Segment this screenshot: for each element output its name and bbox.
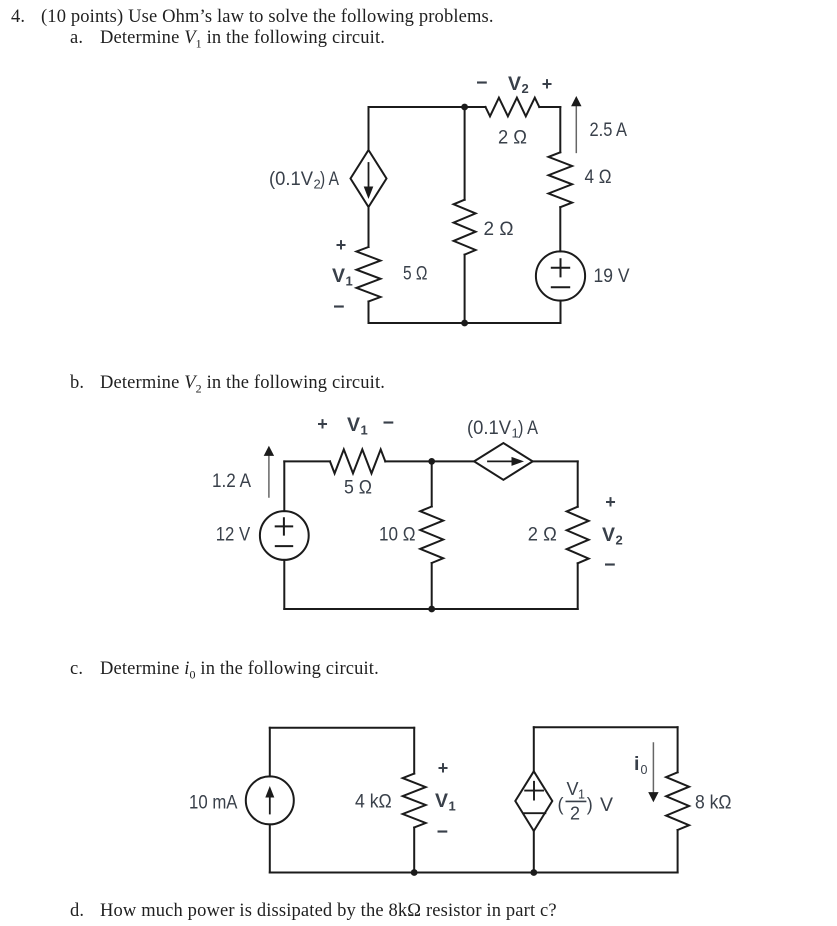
circuit b: resistor 2ohm vertical (V2) [567,507,589,564]
svg-text:19 V: 19 V [594,265,630,287]
svg-text:−: − [476,72,487,94]
svg-text:1: 1 [346,274,353,289]
circuit b: label (0.1V1) A [467,417,538,441]
circuit a: node dot bottom middle [461,320,468,327]
circuit b: bottom wire [284,608,577,610]
circuit c: label i0 [634,753,648,777]
circuit b: left wire top [283,461,285,511]
svg-text:2 Ω: 2 Ω [528,523,557,545]
svg-text:V: V [332,265,345,287]
svg-text:+: + [317,414,328,434]
svg-text:V: V [508,73,521,95]
svg-text:): ) [587,795,593,815]
circuit c: label 10 mA [189,792,238,814]
circuit a: node dot top middle [461,104,468,111]
circuit a: dependent current source diamond (0.1V2)A [351,150,387,207]
circuit b: top wire left segment [284,460,330,462]
svg-text:1: 1 [449,799,456,814]
circuit b: voltage source 12V circle [260,511,309,560]
circuit a: middle wire top [464,107,466,200]
part d prompt [70,901,84,922]
circuit c: wire top to 4k resistor [413,728,415,774]
circuit c: current source 10mA circle [246,776,294,824]
svg-text:−: − [333,296,344,318]
circuit a: right wire top [559,107,561,152]
svg-text:) A: ) A [518,417,538,439]
circuit b: middle wire bottom [431,563,433,609]
svg-text:1.2 A: 1.2 A [212,470,251,492]
svg-text:5 Ω: 5 Ω [344,476,372,498]
circuit a: wire 5ohm to bottom [368,302,370,324]
circuit c: node dot bottom left [411,869,418,876]
circuit b: right wire bottom [577,563,579,609]
circuit c: resistor 8kohm vertical [666,772,689,830]
circuit b: label 1.2 A [212,470,251,492]
circuit c: loop1 top wire [270,727,414,729]
part c prompt [70,659,83,680]
svg-text:10 Ω: 10 Ω [379,524,416,546]
circuit c: right wire top [677,727,679,772]
svg-text:+: + [542,74,553,94]
svg-text:0: 0 [641,763,648,777]
circuit c: loop2 top wire [534,726,678,728]
circuit c: label 4 kohm [355,790,392,812]
part a prompt [70,28,83,49]
circuit c: label + V1 - for 4k [435,758,456,843]
svg-text:+: + [438,758,449,778]
circuit b: right wire top [577,461,579,506]
circuit c: resistor 4kohm vertical (V1) [403,774,426,828]
svg-text:4 Ω: 4 Ω [585,166,612,188]
svg-text:(0.1V: (0.1V [467,417,511,439]
svg-text:(0.1V: (0.1V [269,168,313,190]
svg-text:2.5 A: 2.5 A [590,119,628,141]
circuit b: current arrow 1.2 A [264,446,274,497]
circuit c: wire diamond top to loop2 top [533,727,535,771]
circuit a: bottom wire [369,322,561,324]
svg-text:4 kΩ: 4 kΩ [355,790,392,812]
circuit a: left wire top [368,107,370,150]
circuit a: resistor 4ohm vertical [549,152,573,207]
circuit b: label 2 ohm [528,523,557,545]
svg-text:−: − [383,412,394,434]
svg-text:5 Ω: 5 Ω [403,263,428,285]
circuit b: middle wire top [431,461,433,506]
svg-text:2: 2 [522,81,529,96]
circuit a: voltage source 19V circle [536,251,585,300]
circuit c: wire 4k to bottom [413,828,415,873]
circuit a: wire 4ohm to source [559,207,561,251]
circuit a: middle wire bottom [464,255,466,323]
circuit a: wire source to bottom [560,301,562,323]
svg-text:−: − [437,821,448,843]
circuit a: label 19 V [594,265,630,287]
circuit a: label 2.5 A [590,119,628,141]
svg-text:10 mA: 10 mA [189,792,238,814]
svg-text:+: + [605,492,616,512]
svg-text:V: V [602,524,615,546]
circuit a: label + V1 - for 5ohm [332,235,353,318]
circuit a: label 2 ohm (middle) [484,218,514,240]
circuit a: label - V2 + above resistor [476,72,552,96]
svg-text:2 Ω: 2 Ω [498,127,527,149]
svg-text:1: 1 [578,788,585,802]
circuit c: node dot bottom right [530,869,537,876]
circuit c: wire diamond bottom [533,831,535,873]
circuit b: node dot bottom middle [428,606,435,613]
circuit b: label + V2 - right [602,492,623,576]
svg-text:12 V: 12 V [216,524,251,546]
circuit a: resistor 2ohm vertical middle [454,200,476,255]
circuit b: node dot top middle [428,458,435,465]
svg-text:8 kΩ: 8 kΩ [695,791,732,813]
svg-text:(: ( [558,795,564,815]
circuit b: label 10 ohm [379,524,416,546]
circuit a: top wire right segment [539,106,560,108]
circuit c: right wire bottom [677,830,679,873]
svg-text:2 Ω: 2 Ω [484,218,514,240]
circuit b: left wire bottom [283,560,285,609]
circuit a: top wire left segment [369,106,486,108]
circuit b: top wire middle segment [385,460,474,462]
svg-text:−: − [604,554,615,576]
circuit b: dependent current source diamond (0.1V1)A [474,443,533,480]
circuit b: resistor 5ohm horizontal (V1) [330,449,385,473]
svg-text:2: 2 [570,804,580,824]
circuit a: resistor 2ohm horizontal (V2) [486,98,540,117]
circuit c: left wire top [269,728,271,777]
circuit b: label 12 V [216,524,251,546]
circuit c: current arrow i0 [648,743,658,802]
circuit a: wire diamond to 5ohm [368,207,370,247]
circuit a: label (0.1V2) A [269,168,339,192]
circuit c: label (V1/2) V fraction [558,779,614,824]
circuit c: left wire bottom [269,824,271,872]
circuit b: resistor 10ohm vertical [420,507,443,564]
svg-text:) A: ) A [320,168,339,190]
part b prompt [70,373,84,394]
circuit b: label 5 ohm [344,476,372,498]
circuit c: label 8 kohm [695,791,732,813]
circuit a: label 5 ohm [403,263,428,285]
circuit c: bottom wire [270,872,678,874]
svg-text:V: V [435,790,448,812]
svg-text:i: i [634,753,639,775]
circuit a: current arrow 2.5 A [571,96,581,152]
svg-text:V: V [347,414,360,436]
svg-text:2: 2 [616,533,623,548]
circuit b: top wire right segment [533,460,578,462]
problem statement line 4 [11,7,25,28]
svg-text:V: V [567,779,579,799]
svg-text:1: 1 [361,423,368,438]
circuit a: label 4 ohm [585,166,612,188]
circuit c: dependent voltage source diamond (V1/2)V [515,771,552,831]
svg-text:+: + [336,235,347,255]
circuit a: resistor 5ohm vertical (V1) [357,247,381,302]
circuit b: label + V1 - above 5ohm [317,412,394,438]
svg-text:V: V [600,794,613,816]
circuit a: label 2 ohm (top) [498,127,527,149]
